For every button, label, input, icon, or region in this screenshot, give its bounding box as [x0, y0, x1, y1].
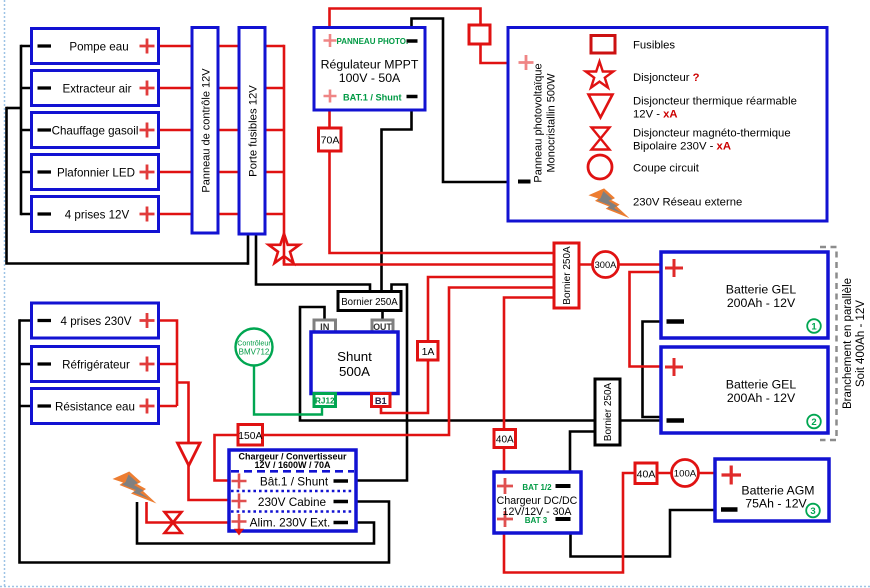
legend hourglass symbol [592, 128, 610, 150]
fuse 150A [238, 425, 263, 446]
shunt tab B1 [372, 394, 391, 407]
page border dashes [4, 0, 6, 588]
wire MPPT panneau minus over top to panel [412, 19, 509, 183]
fuse square top (panel feed) [469, 25, 490, 44]
svg-text:1: 1 [811, 322, 817, 333]
wire shunt IN up-left-down long to black bornier [300, 307, 595, 421]
svg-text:Batterie AGM: Batterie AGM [741, 483, 814, 497]
MPPT minus terminals [407, 41, 418, 97]
svg-text:150A: 150A [238, 431, 262, 442]
bornier 250A black (batteries) [595, 379, 620, 445]
svg-text:BAT 1/2: BAT 1/2 [522, 483, 552, 492]
wire battery1 minus down to battery2 minus [643, 322, 662, 418]
svg-text:B1: B1 [375, 396, 387, 406]
svg-text:Panneau photovoltaïque: Panneau photovoltaïque [533, 63, 545, 182]
svg-text:Shunt: Shunt [337, 349, 372, 364]
legend circle symbol [588, 155, 612, 179]
svg-text:4 prises 230V: 4 prises 230V [61, 315, 132, 328]
shunt tab OUT [372, 320, 393, 333]
AGM minus terminal [721, 507, 738, 512]
wire left minus rail stubs 12V loads [21, 46, 32, 214]
svg-text:BAT 3: BAT 3 [525, 516, 548, 525]
wire ext 230V to bowtie to chargeur row3 plus [147, 502, 233, 523]
svg-text:200Ah - 12V: 200Ah - 12V [727, 296, 796, 310]
bracket parallel batteries [820, 247, 837, 440]
svg-text:Monocristallin 500W: Monocristallin 500W [546, 73, 558, 173]
svg-text:Bât.1 / Shunt: Bât.1 / Shunt [260, 474, 329, 488]
fuse 70A [319, 128, 342, 151]
load box Plafonnier LED [32, 155, 159, 190]
svg-text:40A: 40A [496, 435, 514, 446]
svg-text:100V - 50A: 100V - 50A [339, 71, 401, 85]
wire porte-fusibles minus 1 [247, 234, 250, 265]
svg-text:OUT: OUT [373, 322, 392, 332]
legend triangle symbol [589, 95, 613, 118]
regulator MPPT box [314, 28, 425, 111]
svg-text:70A: 70A [321, 135, 340, 147]
svg-text:Coupe circuit: Coupe circuit [633, 163, 700, 175]
legend square symbol [591, 36, 615, 54]
wire 12V load rows plus [159, 45, 285, 48]
bornier 250A shunt [338, 292, 401, 311]
coupe circuit 300A [593, 252, 619, 278]
svg-text:500A: 500A [339, 364, 370, 379]
svg-text:Extracteur air: Extracteur air [63, 82, 132, 95]
AGM number 3 [806, 504, 820, 518]
svg-text:100A: 100A [674, 469, 697, 480]
legend lightning symbol [588, 188, 629, 218]
wire porte-fusibles minus 2 to bornier [256, 234, 370, 292]
svg-text:Régulateur MPPT: Régulateur MPPT [321, 58, 419, 72]
wire jog rail1 to rail2 [7, 107, 23, 110]
svg-text:12V - xA: 12V - xA [633, 109, 678, 121]
svg-text:75Ah - 12V: 75Ah - 12V [745, 497, 807, 511]
chargeur plus terminals [232, 474, 247, 530]
chargeur convertisseur box [229, 450, 356, 531]
battery2 number 2 [807, 415, 821, 429]
svg-text:2: 2 [811, 417, 816, 428]
chargeur minus terminals [334, 481, 349, 523]
svg-text:Bipolaire 230V - xA: Bipolaire 230V - xA [633, 141, 731, 153]
star disjoncteur main [269, 234, 300, 263]
wire bornier row4 to 150A to chargeur row1 plus [215, 288, 555, 481]
svg-text:Bornier 250A: Bornier 250A [562, 246, 573, 305]
svg-text:PANNEAU PHOTO.: PANNEAU PHOTO. [337, 37, 409, 46]
svg-text:Chauffage gasoil: Chauffage gasoil [52, 124, 139, 137]
svg-text:40A: 40A [637, 468, 656, 480]
battery1 number 1 [807, 319, 821, 333]
wire through star [283, 235, 286, 265]
wire 230V loads minus rail [20, 321, 32, 407]
solar panel minus terminal [518, 180, 531, 184]
wire black bornier stub down to DCDC [570, 432, 595, 473]
svg-text:Contrôleur: Contrôleur [237, 338, 271, 347]
fuse 40A DCDC feed [494, 430, 516, 448]
load box Chauffage gasoil [32, 113, 159, 148]
svg-text:3: 3 [810, 506, 815, 517]
wire MPPT bat1 plus down through 70A to bornier [328, 110, 331, 128]
battery2 plus terminal [665, 358, 683, 376]
wire red bornier to 300A to battery1 plus [579, 263, 661, 266]
wire rail1 12V minus [20, 45, 23, 216]
svg-text:RJ12: RJ12 [315, 397, 335, 406]
wire rail2 down to bottom rail [7, 107, 249, 264]
svg-text:Panneau de contrôle 12V: Panneau de contrôle 12V [201, 68, 213, 193]
MPPT plus terminals [324, 34, 337, 103]
shunt tab RJ12 [314, 394, 336, 407]
svg-text:Pompe eau: Pompe eau [69, 40, 128, 53]
DCDC minus terminals [556, 486, 571, 519]
fuse 40A AGM feed [635, 463, 657, 484]
triangle disjoncteur thermique main [178, 443, 201, 466]
svg-text:Plafonnier LED: Plafonnier LED [57, 166, 135, 179]
svg-text:Fusibles: Fusibles [633, 40, 675, 52]
wire DCDC bat3 plus loop to 40A 100A AGM plus [504, 473, 715, 573]
wire MPPT panneau plus top loop to fuse and panel [330, 9, 481, 28]
hourglass disjoncteur magneto main [165, 512, 182, 533]
battery1 plus terminal [665, 259, 683, 277]
svg-text:Batterie GEL: Batterie GEL [726, 283, 797, 297]
wire alim ext minus loop [137, 502, 374, 544]
bornier 250A red [554, 243, 579, 308]
fuse 1A [418, 342, 439, 361]
wire green BMV712 to RJ12 [254, 366, 322, 415]
battery GEL 2 box [661, 347, 828, 433]
wire battery1 plus branch to battery2 plus [630, 272, 662, 367]
svg-text:Batterie GEL: Batterie GEL [726, 378, 797, 392]
svg-text:230V Cabine: 230V Cabine [258, 495, 327, 509]
svg-text:Disjoncteur ?: Disjoncteur ? [633, 72, 700, 84]
chargeur dashed separator [231, 470, 354, 473]
plus terminals 12V loads [140, 39, 155, 414]
wire DCDC bat3 minus to AGM minus [571, 510, 716, 557]
svg-text:Bornier 250A: Bornier 250A [603, 382, 614, 441]
shunt tab IN [314, 320, 336, 333]
load box Pompe eau [32, 29, 159, 64]
svg-text:4 prises 12V: 4 prises 12V [65, 208, 130, 221]
lightning main [113, 472, 157, 504]
legend star symbol [586, 62, 614, 88]
AGM plus terminal [722, 466, 742, 485]
wire star bottom to red bornier [284, 260, 554, 265]
svg-text:12V / 1600W / 70A: 12V / 1600W / 70A [254, 460, 331, 470]
wire red rail right of porte fusibles down to star [283, 45, 286, 236]
svg-text:Porte fusibles 12V: Porte fusibles 12V [248, 85, 260, 177]
load box Extracteur air [32, 71, 159, 106]
svg-text:BMV712: BMV712 [239, 347, 270, 356]
svg-text:Disjoncteur thermique réarmabl: Disjoncteur thermique réarmable [633, 96, 797, 108]
wire bornier row3 to 1A to B1 [381, 277, 554, 413]
controller BMV712 [236, 329, 273, 366]
load box Resistance eau [32, 389, 159, 424]
svg-text:Alim. 230V Ext.: Alim. 230V Ext. [250, 515, 331, 529]
DCDC plus terminals [497, 478, 513, 527]
svg-text:Soit 400Ah - 12V: Soit 400Ah - 12V [855, 300, 867, 387]
wire black bornier to battery2 minus [620, 419, 661, 422]
wire bornier up-over to chargeur row1 minus [356, 285, 407, 481]
legend / solar panel box [508, 28, 827, 222]
svg-text:Branchement en parallèle: Branchement en parallèle [842, 278, 854, 409]
minus terminals 12V loads [38, 46, 52, 406]
svg-text:200Ah - 12V: 200Ah - 12V [727, 391, 796, 405]
chargeur bottom red arrow [234, 529, 244, 536]
wire MPPT bat1 minus to bornier [382, 110, 412, 292]
chargeur dotted separator 2 [231, 510, 354, 513]
svg-text:230V Réseau externe: 230V Réseau externe [633, 197, 742, 209]
battery GEL 1 box [661, 252, 828, 338]
battery1 minus terminal [667, 319, 685, 324]
panel Porte fusibles 12V [239, 28, 265, 235]
svg-text:BAT.1 / Shunt: BAT.1 / Shunt [343, 92, 402, 102]
shunt box [311, 332, 398, 394]
panel Panneau de controle 12V [192, 28, 218, 234]
svg-text:Résistance eau: Résistance eau [55, 401, 135, 414]
wire 230V loads plus rail to triangle [159, 319, 189, 443]
svg-text:Disjoncteur magnéto-thermique: Disjoncteur magnéto-thermique [633, 128, 791, 140]
svg-text:300A: 300A [595, 260, 618, 270]
wire bornier row5 to 40A to DCDC bat12 plus [504, 298, 554, 473]
load box 4 prises 230V [32, 303, 159, 338]
svg-text:Bornier 250A: Bornier 250A [341, 297, 398, 308]
svg-text:1A: 1A [422, 346, 435, 358]
svg-text:Réfrigérateur: Réfrigérateur [62, 359, 130, 372]
svg-text:IN: IN [320, 322, 330, 332]
chargeur DC/DC box [494, 472, 581, 533]
battery AGM box [715, 459, 829, 521]
coupe circuit 100A [672, 460, 699, 487]
solar panel plus terminal [519, 55, 534, 70]
chargeur dotted separator 1 [231, 490, 354, 493]
wire shunt OUT to bornier [381, 310, 384, 320]
battery2 minus terminal [667, 418, 685, 423]
load box Refrigerateur [32, 347, 159, 382]
wire triangle to chargeur row2 plus [189, 466, 233, 501]
wire 230V minus rail down bottom to chargeur row2 minus [20, 319, 390, 562]
load box 4 prises 12V [32, 197, 159, 232]
